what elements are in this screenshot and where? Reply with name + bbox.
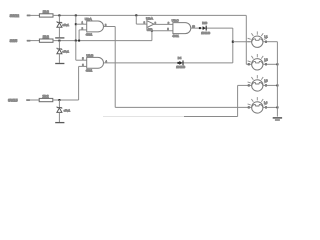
svg-text:2k2: 2k2 [43, 34, 49, 39]
node junction dot row1/U2A input [135, 14, 137, 16]
wire U1A pin 2 stub [79, 29, 87, 31]
value label 4148 of D4 [176, 66, 185, 69]
wire zener D3 top lead [58, 100, 60, 108]
diode D10 (1N4148) [203, 26, 207, 31]
wire L3 feed [238, 84, 252, 86]
pin number 8 of U3C [168, 23, 170, 25]
wire U1A output to corner [104, 26, 116, 28]
reference label D10 [202, 21, 207, 25]
wire lamp bus B faint segment [103, 116, 184, 118]
value label c5v1 of D2 [62, 50, 69, 54]
svg-text:SW5: SW5 [10, 39, 18, 43]
node SW5 input terminal label [10, 39, 18, 43]
wire U3C output run to x=232.8 [191, 27, 233, 29]
value label 4081 of U3C [172, 34, 179, 38]
wire zener D2 to ground [58, 54, 60, 63]
value label 4081 of U1A [86, 32, 93, 36]
svg-text:c5v1: c5v1 [64, 109, 71, 113]
wire L2 right to bus [263, 63, 277, 65]
lamp L4 rays [248, 97, 267, 107]
svg-text:U1:A: U1:A [85, 17, 93, 21]
svg-text:L2: L2 [264, 57, 268, 61]
reference label D4 [178, 56, 182, 60]
buffer U2A input wire from row1 dot [136, 15, 147, 24]
zener diode D1 [57, 21, 62, 27]
lamp L2 [252, 59, 263, 70]
pin number 4 of U1B output [106, 61, 108, 63]
AND gate U3C body [173, 23, 191, 34]
wire to U1B pin 5 [76, 59, 87, 61]
svg-text:2k2: 2k2 [42, 94, 48, 99]
wire SW22 terminal stub [27, 15, 31, 17]
value label 4050 of U2A [148, 29, 153, 31]
lamp L1 [252, 36, 263, 47]
diode D4 (1N4148) [179, 60, 183, 65]
AND gate U1B body [87, 57, 104, 68]
ground symbol row2 [55, 63, 64, 65]
node junction dot row1/U1A input A [75, 14, 77, 16]
node pin dot L3 right [265, 84, 267, 86]
resistor R1 [39, 14, 53, 17]
reference label U2:A [146, 17, 154, 21]
wire U2A output to U3C input A [154, 23, 173, 25]
svg-text:SW22: SW22 [10, 14, 20, 18]
wire R1 to corner x=247.7 (row-1 net) [53, 14, 247, 16]
zener diode D2 [57, 48, 62, 54]
wire L3 right to bus [263, 84, 277, 86]
reference label U1:B [86, 53, 93, 57]
wire L1 right to bus [263, 41, 277, 43]
node SW15 input terminal label [8, 99, 18, 103]
pin number 2 of U1A [82, 28, 84, 30]
node pin dot L2 right [265, 63, 267, 65]
node junction dot L2 left pin [248, 63, 250, 65]
zener diode D3 [57, 107, 62, 113]
pin number 10 of U3C output [192, 27, 195, 29]
value label c5v1 of D3 [64, 109, 71, 113]
reference label L3 [264, 78, 268, 82]
resistor R2 [39, 39, 53, 42]
wire U1A input A feed (vertical x=75.8 row1 to row2) [75, 15, 77, 40]
wire SW22 to R1 [27, 14, 40, 16]
wire row3 riser up to U1B input B [78, 66, 80, 100]
lamp L4 [252, 102, 263, 113]
reference label U3:C [172, 19, 180, 23]
value label 4148 of D10 [201, 32, 210, 35]
reference label L4 [264, 100, 268, 104]
ground symbol row3 [55, 122, 64, 124]
svg-text:SW15: SW15 [8, 99, 18, 103]
svg-text:1N4148: 1N4148 [201, 32, 210, 35]
lamp L2 rays [248, 54, 267, 64]
pin number 2 of U2A output [155, 23, 157, 25]
svg-text:U3:C: U3:C [172, 19, 180, 23]
wire bottom row A (U1A out to lamp L4) [115, 106, 252, 108]
node junction dot U1A input A branch [75, 23, 77, 25]
wire lamp L3 feed bottom run [184, 116, 238, 118]
svg-text:U1:B: U1:B [86, 53, 93, 57]
wire D-net vertical x=232.8 joining D10 and D4 outputs [232, 28, 234, 63]
svg-text:4081: 4081 [86, 32, 93, 36]
wire L1 feed [233, 41, 252, 43]
node SW22 input terminal label [10, 14, 20, 18]
pin number 9 of U3C [167, 29, 169, 31]
wire zener D3 to ground [58, 112, 60, 122]
lamp L1 rays [248, 31, 267, 41]
lamp L3 rays [248, 75, 267, 85]
ground symbol row1 [55, 37, 64, 39]
node junction dot at D4 anode [177, 62, 179, 64]
node junction dot L3 left pin [248, 84, 250, 86]
svg-text:c5v1: c5v1 [62, 23, 69, 27]
wire R3 to riser x=78.6 (row-3 net) [52, 99, 78, 101]
reference label U1:A [85, 17, 93, 21]
wire SW15 to R3 [27, 99, 40, 101]
node junction dot bus/L2 [276, 63, 278, 65]
pin number 1 of U1A [82, 23, 84, 25]
svg-text:4081: 4081 [172, 34, 179, 38]
op-amp?? no: AND gate U1A body [87, 21, 104, 32]
svg-text:D10: D10 [202, 21, 207, 25]
wire zener D2 top lead [58, 41, 60, 49]
node pin dot L4 right [265, 106, 267, 108]
value label 2k2 of R1 [43, 9, 49, 14]
svg-text:L4: L4 [264, 100, 268, 104]
node pin dot L1 right [265, 41, 267, 43]
value label 4081 of U1B [86, 69, 93, 73]
svg-text:L3: L3 [264, 78, 268, 82]
value label c5v1 of D1 [62, 23, 69, 27]
wire zener D1 to ground [58, 27, 60, 37]
value label 2k2 of R3 [42, 94, 48, 99]
node junction dot row2/U1A input B riser [78, 40, 80, 42]
node junction dot bus/L4 [276, 106, 278, 108]
node junction dot row2/x75.8 vertical [75, 40, 77, 42]
wire SW5 terminal stub [27, 40, 31, 42]
wire U1A input B riser from row2 [78, 30, 80, 41]
svg-text:1N4148: 1N4148 [176, 66, 185, 69]
wire row2 riser up to U3C input B net [151, 31, 153, 41]
resistor R3 [39, 98, 53, 101]
wire to U1A pin 1 [76, 23, 87, 25]
wire U1B output long run to x=232.8 [104, 62, 233, 64]
node junction dot row2/zener D2 [58, 40, 60, 42]
wire zener D1 top lead [58, 15, 60, 22]
wire U1B pin 6 stub [79, 65, 87, 67]
svg-text:4081: 4081 [86, 69, 93, 73]
pin number 3 of U1A output [105, 25, 107, 27]
value label 2k2 of R2 [43, 34, 49, 39]
wire L4 right to bus [263, 106, 277, 108]
svg-text:L1: L1 [264, 35, 268, 39]
buffer U2A (triangle) [147, 21, 154, 28]
pin number 5 of U1B [82, 59, 84, 61]
ground symbol lamp bus [273, 118, 282, 120]
svg-text:U2:A: U2:A [146, 17, 154, 21]
svg-text:D4: D4 [178, 56, 182, 60]
node junction dot at D10 anode [199, 27, 201, 29]
wire U1A output vertical down to bottom row [114, 27, 116, 108]
wire SW15 terminal stub [26, 99, 30, 101]
node junction dot riser/U3C input B wire [151, 30, 153, 32]
svg-text:c5v1: c5v1 [62, 50, 69, 54]
node junction dot L4 left pin [248, 106, 250, 108]
node junction dot row3/zener D3 [58, 99, 60, 101]
reference label L2 [264, 57, 268, 61]
wire R2 to riser x=151.9 (row-2 net) [53, 40, 152, 42]
lamp L3 [252, 80, 263, 91]
wire L2 feed [246, 63, 252, 65]
wire U1B input A feed (x=75.8 down from row2) [75, 41, 77, 61]
wire right-hand lamp bus [276, 42, 278, 117]
node junction dot bus/L3 [276, 84, 278, 86]
wire row1 net vertical x=247.7 down to L2 [245, 15, 247, 64]
pin number 3 of U2A input [144, 23, 146, 25]
svg-text:2k2: 2k2 [43, 9, 49, 14]
node junction dot L1 feed branch [232, 41, 234, 43]
reference label L1 [264, 35, 268, 39]
pin number 6 of U1B [82, 65, 84, 67]
wire L3 feed riser [237, 85, 239, 116]
node junction dot row1/zener D1 [58, 14, 60, 16]
wire U2A input-net drop to U3C input B [147, 24, 173, 31]
wire SW5 to R2 [27, 40, 40, 42]
